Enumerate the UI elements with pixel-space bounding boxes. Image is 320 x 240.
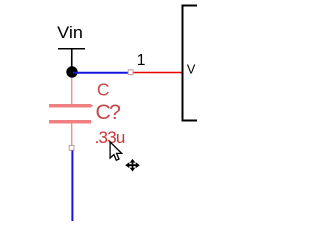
svg-text:V: V [187,62,196,76]
svg-text:1: 1 [137,52,146,69]
mouse cursor arrow [110,142,122,160]
svg-text:C?: C? [96,100,122,124]
reference designator C? [96,100,122,124]
selection handle below capacitor [69,145,74,150]
capacitor C1 bottom stub [71,124,73,146]
capacitor C1 bottom plate [49,120,91,124]
wire red selected segment [134,72,183,74]
capacitor C1 top stub [71,78,73,105]
svg-text:C: C [97,79,110,99]
move (four-arrow) icon [125,159,140,172]
label C (pin name) [97,79,110,99]
component box (partial symbol) [183,6,198,121]
top plate end nub [91,105,94,108]
value .33u [95,128,126,147]
node Vin label [57,23,83,42]
Vin terminal bar [58,48,85,50]
junction dot [66,66,77,77]
capacitor C1 top plate [49,104,91,108]
pin name V [187,62,196,76]
wire blue vertical segment [71,151,73,222]
selection handle on wire [128,70,133,75]
wire blue horizontal segment [73,72,128,74]
pin number 1 [137,52,146,69]
svg-text:Vin: Vin [57,23,83,42]
wire from Vin bar to junction [71,49,73,67]
